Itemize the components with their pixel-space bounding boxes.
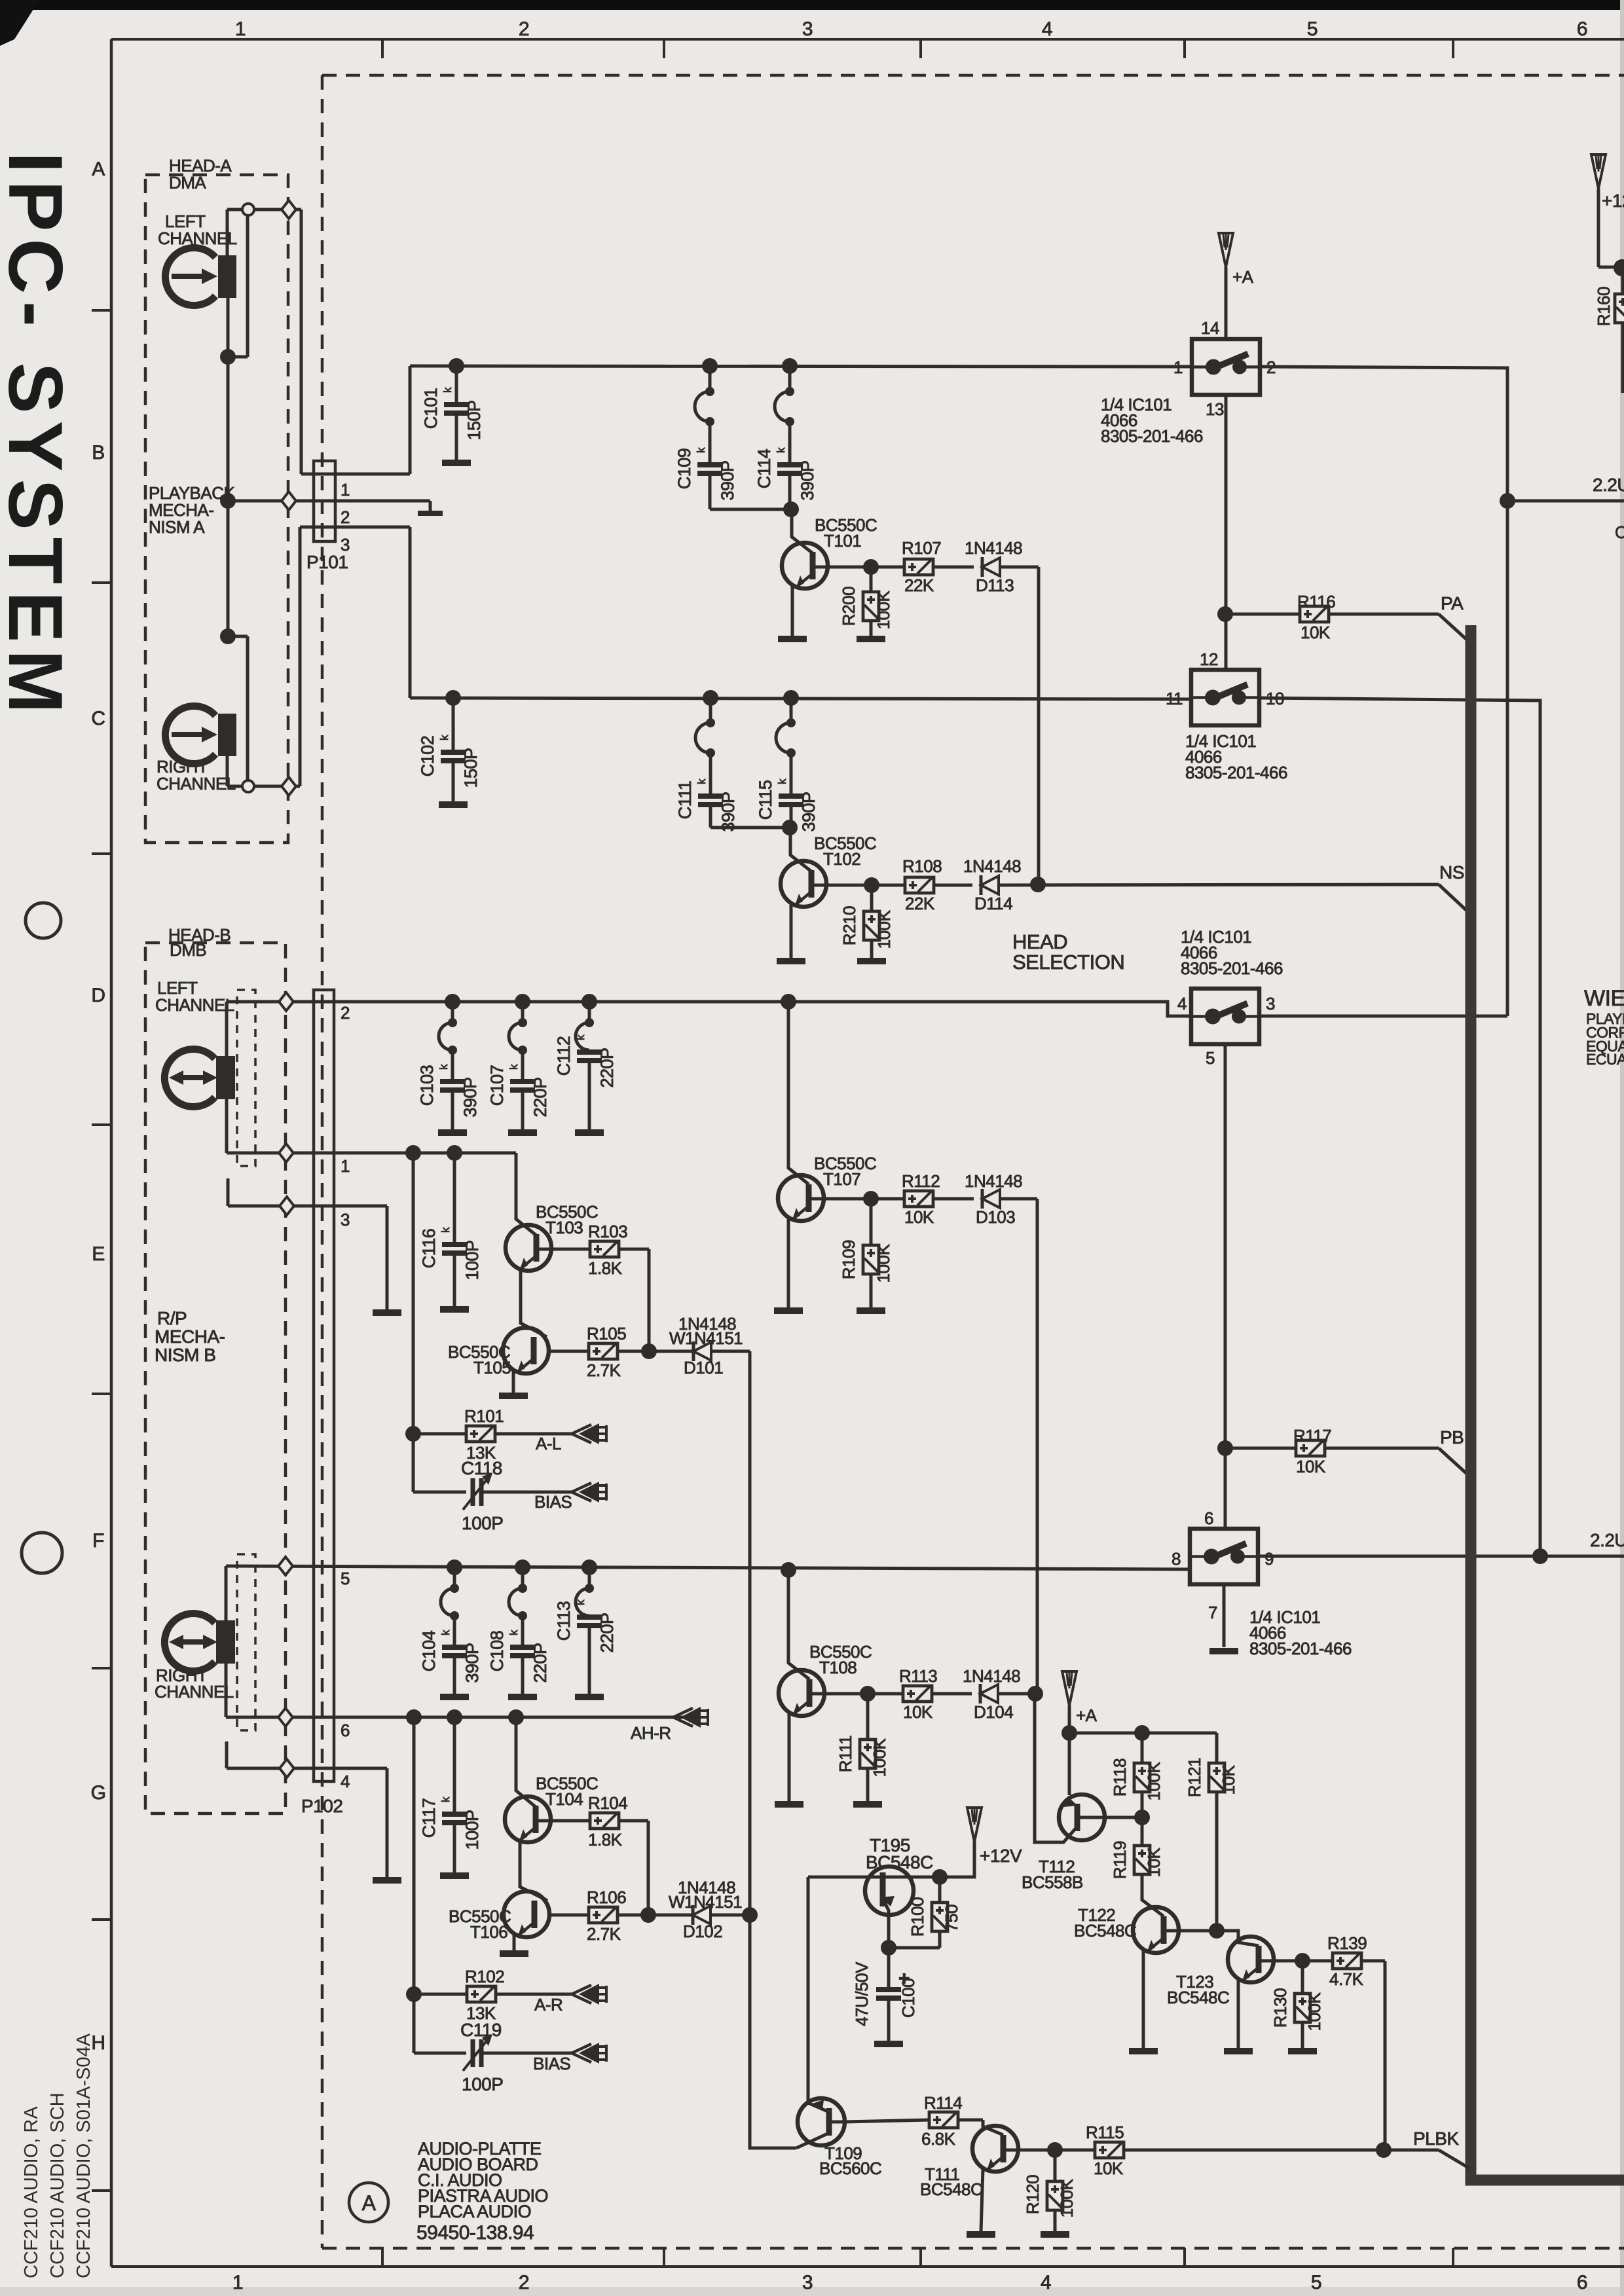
resistor R210	[870, 885, 874, 911]
svg-text:C115: C115	[756, 780, 775, 820]
svg-text:C116: C116	[419, 1229, 439, 1269]
svg-text:E: E	[92, 1243, 105, 1265]
svg-text:390P: 390P	[462, 1643, 482, 1683]
ruler ticks	[381, 39, 384, 58]
svg-text:6.8K: 6.8K	[921, 2129, 956, 2149]
sw4 control ground	[1223, 1584, 1226, 1647]
diamond head-A-L top	[282, 200, 296, 219]
svg-text:CCF210 AUDIO, S01A-S04A: CCF210 AUDIO, S01A-S04A	[73, 2033, 94, 2278]
svg-text:C111: C111	[675, 781, 695, 820]
svg-text:3: 3	[1266, 994, 1275, 1013]
svg-text:CCF210 AUDIO, RA: CCF210 AUDIO, RA	[21, 2106, 42, 2278]
svg-text:220P: 220P	[530, 1077, 550, 1117]
wire P102 pin3 stub	[227, 1178, 230, 1206]
bus bar	[1471, 625, 1624, 2180]
connector P102	[314, 990, 334, 1781]
svg-text:k: k	[695, 778, 708, 784]
junction pin1-631	[405, 1145, 421, 1161]
junction A-L-1	[220, 349, 236, 365]
resistor R102	[414, 1993, 467, 1996]
resistor R105	[547, 1350, 589, 1353]
svg-text:1: 1	[341, 1156, 350, 1176]
svg-text:1: 1	[1173, 357, 1183, 377]
resistor R117	[1225, 1447, 1296, 1450]
svg-text:MECHA-: MECHA-	[155, 1326, 225, 1347]
resistor R160	[1615, 294, 1624, 323]
resistor R101	[413, 1432, 466, 1436]
svg-text:PB: PB	[1440, 1427, 1464, 1448]
head B left symbol	[164, 1049, 215, 1107]
wire P102 pin6 line	[226, 1716, 688, 1719]
diode D104	[979, 1684, 982, 1704]
svg-text:k: k	[439, 1227, 452, 1233]
svg-text:150P: 150P	[461, 748, 481, 788]
diamond B pin4	[280, 1759, 294, 1777]
svg-text:1.8K: 1.8K	[588, 1830, 623, 1850]
svg-text:k: k	[439, 1630, 452, 1635]
wire L2	[410, 698, 1191, 699]
svg-text:BC548C: BC548C	[1074, 1921, 1136, 1941]
svg-text:A-R: A-R	[534, 1995, 563, 2014]
diamond B pin2	[279, 993, 293, 1011]
sw3 control wire	[1224, 1044, 1227, 1529]
capacitor C117	[453, 1717, 456, 1812]
wire D101-D102 rail	[750, 1351, 796, 2148]
svg-text:+12: +12	[1602, 191, 1624, 211]
svg-text:T102: T102	[823, 849, 860, 869]
head-B right inner bracket	[237, 1554, 255, 1730]
+12 arrow top right	[1591, 155, 1606, 189]
transistor T106	[504, 1891, 549, 1937]
resistor R112	[871, 1197, 904, 1201]
svg-text:R118: R118	[1110, 1758, 1130, 1796]
svg-text:R200: R200	[839, 587, 858, 626]
svg-text:k: k	[438, 735, 451, 740]
analog switch IC101a	[1192, 339, 1260, 395]
arrow BIAS	[572, 1483, 591, 1492]
svg-text:R109: R109	[839, 1240, 858, 1279]
capacitor C107	[515, 994, 530, 1010]
svg-text:R121: R121	[1185, 1758, 1204, 1797]
svg-text:k: k	[574, 1034, 587, 1040]
svg-text:3: 3	[802, 18, 813, 40]
svg-text:22K: 22K	[905, 894, 935, 913]
resistor R121	[1215, 1733, 1219, 1763]
svg-text:C119: C119	[460, 2020, 502, 2040]
svg-text:R100: R100	[908, 1897, 927, 1937]
resistor R130	[1301, 1961, 1304, 1994]
T102 collector wire	[811, 884, 872, 887]
T107 emitter	[787, 1218, 790, 1308]
junction pin6-632	[406, 1709, 422, 1725]
svg-text:BC548C: BC548C	[1167, 1988, 1229, 2007]
svg-text:100K: 100K	[870, 1738, 889, 1777]
transistor T107	[778, 1175, 824, 1221]
svg-text:R139: R139	[1327, 1933, 1367, 1953]
capacitor C118 trimmer	[413, 1491, 466, 1494]
T123 emitter	[1237, 1980, 1240, 2049]
svg-text:BIAS: BIAS	[534, 1492, 572, 1512]
svg-text:D113: D113	[976, 575, 1014, 595]
T122 emitter	[1142, 1950, 1145, 2049]
svg-text:CHANNEL: CHANNEL	[155, 995, 234, 1015]
wire T109 collector	[845, 2120, 929, 2122]
T107 collector wire	[809, 1197, 871, 1201]
T111 collector wire	[1003, 2149, 1055, 2152]
wire C111-C115 join	[710, 826, 790, 829]
registration hole top	[26, 903, 61, 938]
svg-text:AH-R: AH-R	[631, 1723, 671, 1743]
diamond playback	[282, 492, 296, 510]
svg-text:CCF210 AUDIO, SCH: CCF210 AUDIO, SCH	[47, 2092, 68, 2278]
svg-text:390P: 390P	[460, 1077, 480, 1117]
svg-text:5: 5	[341, 1569, 350, 1588]
resistor R104	[536, 1819, 590, 1823]
wire D113 to NS node	[1037, 567, 1041, 884]
sw1 output wire	[1260, 367, 1507, 1016]
svg-text:8305-201-466: 8305-201-466	[1185, 763, 1287, 782]
svg-text:PLACA AUDIO: PLACA AUDIO	[418, 2202, 531, 2221]
arrow A-R	[572, 1985, 591, 1994]
svg-text:2: 2	[519, 2272, 529, 2293]
svg-text:NISM B: NISM B	[155, 1345, 215, 1365]
junction R101	[405, 1426, 421, 1442]
wire to P101 pin3	[299, 527, 302, 786]
analog switch IC101d	[1190, 1529, 1258, 1584]
svg-text:10K: 10K	[1296, 1457, 1326, 1476]
svg-text:D101: D101	[684, 1358, 723, 1377]
diamond B pin6	[278, 1708, 293, 1726]
wire head-A-R loop	[228, 635, 248, 638]
analog switch IC101b	[1191, 670, 1259, 725]
svg-text:R116: R116	[1297, 592, 1335, 611]
wire +12V	[940, 1842, 974, 1877]
svg-text:A: A	[92, 158, 105, 180]
T108 emitter	[788, 1713, 791, 1802]
svg-text:C112: C112	[554, 1036, 574, 1076]
svg-text:+12V: +12V	[980, 1846, 1022, 1866]
svg-text:G: G	[91, 1782, 106, 1804]
sw3 output wire	[1259, 1015, 1507, 1018]
svg-text:22K: 22K	[904, 575, 934, 595]
transistor T122	[1133, 1907, 1179, 1953]
svg-text:220P: 220P	[597, 1048, 617, 1087]
svg-text:2: 2	[519, 18, 529, 40]
+12V arrow	[967, 1808, 982, 1842]
diode D103	[981, 1189, 984, 1209]
svg-text:R117: R117	[1293, 1426, 1331, 1446]
sw3 input wire	[788, 1002, 1191, 1016]
resistor R107	[871, 566, 904, 569]
svg-text:390P: 390P	[798, 460, 817, 500]
wire head-B-R top	[225, 1566, 228, 1620]
wire +A to sw1	[1225, 267, 1228, 339]
svg-text:R120: R120	[1023, 2175, 1043, 2214]
capacitor C103	[445, 994, 460, 1010]
transistor T123	[1228, 1937, 1274, 1982]
svg-text:10K: 10K	[904, 1207, 934, 1227]
node NS junction	[1030, 877, 1046, 892]
wire head-A-L top	[226, 210, 229, 255]
svg-text:7: 7	[1208, 1603, 1217, 1622]
capacitor C111	[703, 690, 718, 706]
svg-text:D102: D102	[683, 1922, 722, 1941]
resistor R139	[1302, 1959, 1333, 1963]
svg-text:k: k	[776, 778, 788, 784]
wire head-A-R bottom	[226, 756, 229, 786]
svg-text:T108: T108	[819, 1658, 857, 1677]
svg-text:5: 5	[1307, 18, 1318, 40]
svg-text:100K: 100K	[1304, 1992, 1324, 2031]
capacitor C114	[782, 358, 798, 374]
junction pin1-694	[447, 1145, 462, 1161]
wire playback line	[228, 500, 430, 503]
svg-text:1N4148: 1N4148	[963, 1666, 1020, 1686]
capacitor C104	[447, 1559, 462, 1575]
capacitor C102	[445, 690, 461, 706]
wire head-B-L top	[225, 1002, 229, 1056]
svg-text:10K: 10K	[1094, 2159, 1124, 2178]
svg-text:PLBK: PLBK	[1413, 2128, 1459, 2149]
svg-text:1N4148: 1N4148	[965, 1171, 1022, 1191]
svg-text:47U/50V: 47U/50V	[852, 1961, 872, 2026]
svg-text:T105: T105	[473, 1358, 511, 1377]
svg-text:D104: D104	[974, 1702, 1013, 1722]
svg-text:100P: 100P	[462, 1240, 482, 1280]
resistor R114	[929, 2112, 958, 2128]
resistor R109	[870, 1199, 873, 1245]
row letters	[92, 309, 111, 312]
resistor R108	[872, 884, 905, 887]
wire D103-D104 rail	[1036, 1199, 1039, 1694]
capacitor C115	[783, 690, 799, 706]
svg-text:R111: R111	[836, 1736, 855, 1772]
CCF210 side text	[21, 2033, 94, 2278]
arrow A-L	[572, 1425, 591, 1434]
svg-text:T103: T103	[545, 1218, 583, 1237]
svg-text:R104: R104	[588, 1793, 627, 1813]
svg-text:59450-138.94: 59450-138.94	[416, 2222, 534, 2244]
junction R102	[406, 1986, 422, 2002]
svg-text:R115: R115	[1086, 2123, 1124, 2142]
svg-text:k: k	[441, 387, 454, 393]
svg-text:R130: R130	[1270, 1988, 1290, 2028]
svg-text:13: 13	[1206, 399, 1224, 419]
svg-text:8305-201-466: 8305-201-466	[1101, 426, 1203, 446]
T101 emitter wire	[791, 586, 794, 636]
diamond B pin1	[279, 1144, 293, 1162]
wire head-A-L bottom	[227, 298, 230, 636]
svg-text:D114: D114	[974, 894, 1012, 913]
svg-text:BC558B: BC558B	[1022, 1872, 1083, 1892]
svg-text:C101: C101	[421, 388, 441, 429]
svg-text:6: 6	[1577, 2272, 1587, 2293]
junction pin6-694	[447, 1709, 462, 1725]
svg-text:220P: 220P	[597, 1613, 617, 1652]
transistor T105	[503, 1328, 549, 1374]
head A left symbol	[165, 248, 215, 306]
T123 collector wire	[1259, 1959, 1302, 1963]
svg-text:R107: R107	[902, 538, 941, 558]
diamond B pin3	[280, 1197, 294, 1215]
svg-text:R102: R102	[465, 1967, 504, 1986]
svg-text:100K: 100K	[1057, 2178, 1077, 2217]
svg-text:100P: 100P	[462, 1810, 482, 1850]
svg-text:C108: C108	[487, 1631, 507, 1672]
svg-text:3: 3	[341, 535, 350, 555]
svg-text:4: 4	[1177, 994, 1187, 1013]
resistor R116	[1225, 613, 1300, 616]
svg-text:NISM A: NISM A	[149, 517, 205, 537]
svg-text:R210: R210	[840, 906, 859, 945]
wire +A rail	[1068, 1705, 1071, 1795]
capacitor C116	[453, 1153, 456, 1243]
revision circle A	[349, 2183, 388, 2222]
T105 emitter	[512, 1371, 515, 1393]
head B right symbol	[164, 1614, 215, 1671]
diamond B pin5	[278, 1557, 293, 1575]
node ring A-L	[242, 204, 254, 215]
junction C100	[881, 1940, 896, 1956]
wire +12 top right	[1597, 189, 1600, 267]
arrow AH-R	[673, 1708, 693, 1717]
svg-text:k: k	[439, 1796, 452, 1802]
svg-text:1N4148: 1N4148	[965, 538, 1022, 558]
svg-text:NS: NS	[1439, 862, 1464, 883]
svg-text:1: 1	[235, 18, 246, 40]
svg-text:R112: R112	[902, 1171, 940, 1191]
diode D101	[649, 1350, 693, 1353]
svg-text:390P: 390P	[718, 460, 737, 500]
svg-text:B: B	[92, 442, 105, 464]
svg-text:k: k	[574, 1599, 587, 1605]
svg-text:R108: R108	[902, 856, 942, 876]
resistor R103	[536, 1248, 590, 1251]
capacitor C108	[515, 1559, 530, 1575]
T106 emitter	[513, 1935, 516, 1951]
svg-text:R106: R106	[587, 1887, 626, 1907]
junction T108 base	[781, 1562, 796, 1578]
wire head-B-L bottom	[225, 1099, 229, 1153]
svg-text:T106: T106	[470, 1922, 507, 1942]
svg-text:A-L: A-L	[536, 1434, 561, 1453]
T122 collector wire	[1164, 1929, 1217, 1933]
HEAD-A dashed box	[145, 175, 288, 843]
svg-text:T107: T107	[823, 1169, 860, 1189]
svg-text:R103: R103	[588, 1222, 627, 1241]
ground P101 pin2	[418, 511, 443, 516]
svg-text:14: 14	[1201, 318, 1219, 338]
transistor T195	[865, 1867, 913, 1915]
sw1 control chain	[1225, 395, 1228, 670]
svg-text:2.7K: 2.7K	[587, 1924, 621, 1944]
svg-text:BC560C: BC560C	[819, 2159, 881, 2178]
svg-text:100K: 100K	[874, 1243, 893, 1283]
capacitor C109	[702, 358, 718, 374]
diode D114	[980, 875, 983, 895]
T101 collector wire	[813, 566, 871, 569]
svg-text:C113: C113	[554, 1601, 574, 1641]
svg-text:750: 750	[942, 1904, 961, 1932]
svg-text:+A: +A	[1232, 267, 1254, 287]
wire C109-C114 join	[710, 508, 791, 511]
wire head-B-R bottom	[225, 1664, 228, 1717]
resistor R119	[1141, 1817, 1144, 1846]
svg-text:+A: +A	[1076, 1705, 1098, 1725]
analog switch IC101c	[1191, 989, 1259, 1044]
svg-text:DMA: DMA	[169, 173, 206, 192]
left output node wire	[1507, 500, 1624, 503]
border frame	[111, 38, 1624, 41]
sw4 output wire	[1258, 1555, 1624, 1558]
wire P102 pin5 line	[226, 1566, 1190, 1569]
svg-text:P101: P101	[306, 552, 348, 572]
diamond head-A-R	[282, 777, 296, 795]
sw2 output wire	[1259, 698, 1540, 1556]
head-B left inner bracket	[237, 990, 255, 1166]
resistor R106	[547, 1914, 589, 1917]
svg-text:C103: C103	[417, 1065, 437, 1106]
wire to P101 pin1	[300, 210, 303, 474]
svg-text:IPC- SYSTEM: IPC- SYSTEM	[0, 152, 79, 721]
svg-text:390P: 390P	[718, 792, 738, 831]
svg-text:C: C	[1615, 522, 1624, 542]
transistor T104	[505, 1796, 551, 1842]
junction A-R top	[220, 629, 236, 644]
svg-text:C109: C109	[674, 448, 694, 490]
capacitor C113	[581, 1559, 597, 1575]
svg-text:9: 9	[1264, 1549, 1274, 1569]
svg-text:R119: R119	[1110, 1841, 1130, 1879]
junction T107 base	[781, 994, 796, 1010]
wire record branch right	[413, 1717, 416, 2053]
svg-text:CHANNEL: CHANNEL	[155, 1682, 234, 1702]
svg-text:1: 1	[341, 480, 350, 500]
capacitor C112	[581, 994, 597, 1010]
svg-text:k: k	[507, 1064, 520, 1070]
svg-text:1: 1	[232, 2272, 243, 2293]
svg-text:6: 6	[1204, 1508, 1213, 1528]
capacitor C100 electrolytic	[887, 1948, 891, 1988]
svg-text:100K: 100K	[1144, 1761, 1164, 1800]
svg-text:CHANNEL: CHANNEL	[157, 774, 236, 793]
P101 pin3 wire	[335, 526, 410, 529]
svg-text:P102: P102	[301, 1796, 342, 1816]
wire P102 pin2 line	[227, 1000, 1168, 1004]
svg-text:10K: 10K	[1219, 1764, 1238, 1795]
svg-text:6: 6	[341, 1721, 350, 1740]
resistor R200	[870, 567, 873, 592]
svg-text:DMB: DMB	[170, 940, 206, 960]
svg-text:4.7K: 4.7K	[1329, 1969, 1364, 1989]
arrow BIAS 2	[572, 2044, 591, 2053]
svg-text:100P: 100P	[462, 2074, 503, 2094]
P101 pin1 wire	[301, 473, 410, 476]
resistor R100	[938, 1877, 942, 1903]
svg-text:R160: R160	[1594, 287, 1614, 326]
transistor T101	[782, 543, 828, 589]
wire P102 pin1 line	[227, 1152, 516, 1155]
resistor R111	[866, 1694, 870, 1740]
svg-text:R/P: R/P	[157, 1308, 187, 1328]
transistor T103	[506, 1225, 551, 1271]
svg-text:R114: R114	[924, 2093, 962, 2113]
svg-text:ECUALI: ECUALI	[1586, 1051, 1624, 1068]
svg-text:2.2U: 2.2U	[1590, 1530, 1624, 1550]
wire record branch left	[412, 1153, 415, 1492]
svg-text:390P: 390P	[799, 792, 819, 831]
svg-text:220P: 220P	[530, 1643, 550, 1683]
